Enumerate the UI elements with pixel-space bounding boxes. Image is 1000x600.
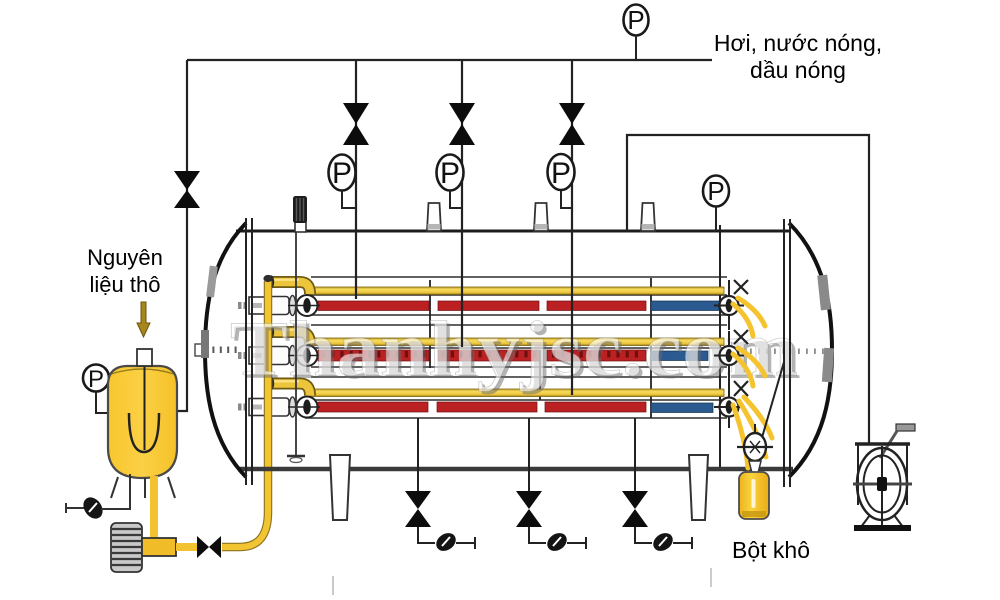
faint artifact marks bbox=[332, 576, 334, 595]
feed pump bbox=[111, 523, 176, 572]
spray jet row 1 bbox=[733, 298, 765, 336]
spray nozzle row 1 bbox=[714, 280, 748, 330]
drain line 2 bbox=[516, 418, 586, 555]
svg-text:Thanhyjsc.com: Thanhyjsc.com bbox=[230, 305, 798, 392]
exhaust fan bbox=[853, 424, 915, 528]
valve V2 bbox=[343, 103, 369, 145]
vessel top line bbox=[236, 230, 790, 233]
svg-text:P: P bbox=[88, 366, 104, 393]
spray nozzle row 2 bbox=[714, 330, 748, 390]
support leg left bbox=[330, 455, 350, 520]
svg-text:P: P bbox=[332, 157, 352, 190]
tank neck bbox=[137, 349, 152, 366]
valve V1 on left branch bbox=[174, 171, 200, 208]
axis fitting left bbox=[195, 344, 206, 356]
top stub nozzle 3 bbox=[534, 203, 548, 231]
pump discharge valve bbox=[197, 536, 221, 558]
axis tick marks bbox=[205, 347, 824, 355]
gauge P line3 bbox=[548, 154, 575, 190]
spray jet row 3 bbox=[733, 397, 772, 468]
dry powder bottle bbox=[739, 472, 769, 519]
feed line 3 bbox=[571, 60, 573, 395]
blue bar row 2 bbox=[651, 351, 708, 361]
svg-text:P: P bbox=[440, 157, 460, 190]
yellow tube row 1 bbox=[310, 287, 724, 295]
yellow tube row 3 bbox=[310, 389, 724, 397]
svg-text:Nguyên: Nguyên bbox=[87, 245, 163, 270]
tank legs bbox=[111, 477, 118, 498]
right tube sheet bbox=[783, 219, 785, 487]
drain line 1 bbox=[405, 418, 475, 555]
top stub nozzle 2 bbox=[427, 203, 441, 231]
feed nozzle assembly row 2 bbox=[238, 345, 320, 366]
left tube sheet bbox=[245, 218, 247, 485]
steam manifold bbox=[187, 59, 712, 61]
agitator shaft bbox=[144, 349, 146, 450]
top stub nozzle 4 bbox=[641, 203, 655, 231]
gauge P tank bbox=[83, 365, 109, 394]
feed arrow bbox=[137, 302, 150, 337]
blue bar row 3 bbox=[651, 403, 713, 413]
left head bbox=[205, 223, 246, 477]
spray jet row 2 bbox=[733, 348, 765, 386]
support leg right bbox=[689, 455, 708, 520]
valve V4 bbox=[559, 103, 585, 145]
feed line 1 bbox=[355, 60, 357, 299]
red heater bars row 3 bbox=[318, 402, 646, 412]
drain line 3 bbox=[622, 418, 692, 555]
vertical connectors bbox=[430, 225, 720, 469]
head tabs bbox=[206, 266, 218, 298]
feed nozzle assembly row 1 bbox=[238, 295, 320, 316]
top stub nozzle with black cap bbox=[293, 196, 307, 232]
left branch pipe down to tank bbox=[178, 60, 187, 411]
raw material tank bbox=[108, 349, 177, 498]
svg-text:liệu thô: liệu thô bbox=[90, 272, 161, 297]
drain fitting at tank left bbox=[66, 474, 130, 522]
svg-text:P: P bbox=[707, 176, 724, 206]
vessel bottom line bbox=[238, 467, 793, 472]
red heater bars row 1 bbox=[318, 301, 646, 311]
svg-text:Hơi, nước nóng,: Hơi, nước nóng, bbox=[714, 30, 882, 56]
vacuum line rectangle to fan bbox=[627, 135, 869, 444]
feed elbow pipe row 1 bbox=[268, 275, 310, 294]
blue bar row 1 bbox=[651, 301, 719, 311]
feed line 2 bbox=[461, 60, 463, 347]
gauge P line2 bbox=[437, 155, 464, 191]
watermark Thanhyjsc.com bbox=[230, 305, 801, 395]
spray nozzle row 3 bbox=[714, 381, 748, 428]
feed elbow pipe row 3 bbox=[268, 377, 310, 396]
right head bbox=[789, 223, 832, 477]
valve V3 bbox=[449, 103, 475, 145]
gauge P line1 bbox=[329, 155, 356, 191]
feed elbow pipe row 2 bbox=[268, 325, 310, 344]
internal rod with foot bbox=[295, 232, 297, 455]
diagonal brace to discharge valve bbox=[761, 362, 784, 441]
bundle rails bbox=[305, 277, 727, 418]
pipe pump to valve bbox=[176, 543, 198, 551]
gauge P top bbox=[624, 5, 649, 36]
tank outlet pipe bbox=[150, 476, 158, 539]
svg-text:P: P bbox=[627, 5, 644, 35]
svg-text:P: P bbox=[551, 157, 571, 190]
yellow tube row 2 bbox=[310, 338, 724, 346]
agitator U blade bbox=[129, 413, 159, 452]
feed nozzle assembly row 3 bbox=[238, 397, 320, 418]
gauge P vessel right bbox=[703, 176, 729, 207]
vertical yellow feed pipe with curve to pump valve bbox=[222, 275, 273, 547]
svg-text:dầu nóng: dầu nóng bbox=[750, 57, 846, 83]
svg-text:Bột khô: Bột khô bbox=[732, 537, 810, 563]
discharge rotary valve bbox=[737, 424, 773, 473]
red heater bar row 2 (hatched) bbox=[318, 350, 646, 361]
